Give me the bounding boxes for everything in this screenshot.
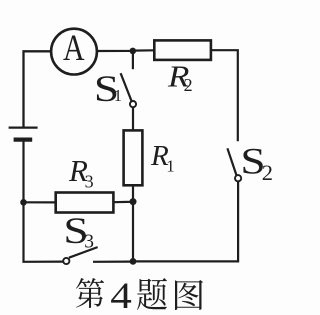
wire ammeter to node B: [97, 50, 133, 52]
node C junction dot: [130, 198, 137, 205]
node B junction dot: [130, 48, 137, 55]
wire R2 to top-right corner: [211, 50, 238, 141]
battery BT1 long plate: [9, 126, 38, 128]
switch S3 contact circle: [63, 258, 69, 264]
wire left rail to R3: [24, 201, 57, 203]
wire S2 to bottom-right corner: [133, 182, 238, 262]
node E junction dot (left rail): [20, 199, 27, 206]
wire top-left segment: [24, 51, 52, 127]
wire R3 to node C: [113, 201, 133, 204]
wire S1 to R1: [132, 107, 134, 130]
svg-text:4: 4: [110, 275, 132, 315]
switch S1 blade: [121, 73, 132, 101]
wire node C to bottom node D: [132, 202, 134, 262]
wire node B stub to S1: [132, 51, 134, 69]
wire bottom middle to S3 blade gap: [93, 261, 133, 263]
caption char DI (第): [76, 278, 104, 308]
wire R1 to node C: [132, 185, 134, 201]
battery BT1 short plate: [14, 138, 33, 142]
switch S2 blade: [227, 148, 236, 175]
svg-text:3: 3: [85, 172, 94, 192]
caption char TU (图): [175, 280, 203, 310]
svg-text:1: 1: [114, 86, 122, 105]
resistor R1 body: [124, 130, 143, 185]
switch S1 contact circle: [130, 101, 136, 107]
caption char TI (题): [137, 278, 167, 310]
ammeter A1 circle: [51, 29, 97, 75]
svg-text:2: 2: [184, 75, 193, 95]
resistor R3 body: [56, 193, 114, 213]
wire node B to R2: [133, 49, 155, 51]
svg-text:2: 2: [262, 160, 273, 185]
resistor R2 body: [154, 40, 211, 60]
node D junction dot: [130, 258, 137, 265]
switch S3 blade: [69, 247, 98, 258]
svg-text:A: A: [63, 28, 85, 68]
wire S3 to bottom-left corner: [24, 140, 64, 262]
switch S2 contact circle: [235, 175, 241, 181]
svg-text:1: 1: [166, 156, 175, 175]
svg-text:3: 3: [84, 232, 94, 253]
